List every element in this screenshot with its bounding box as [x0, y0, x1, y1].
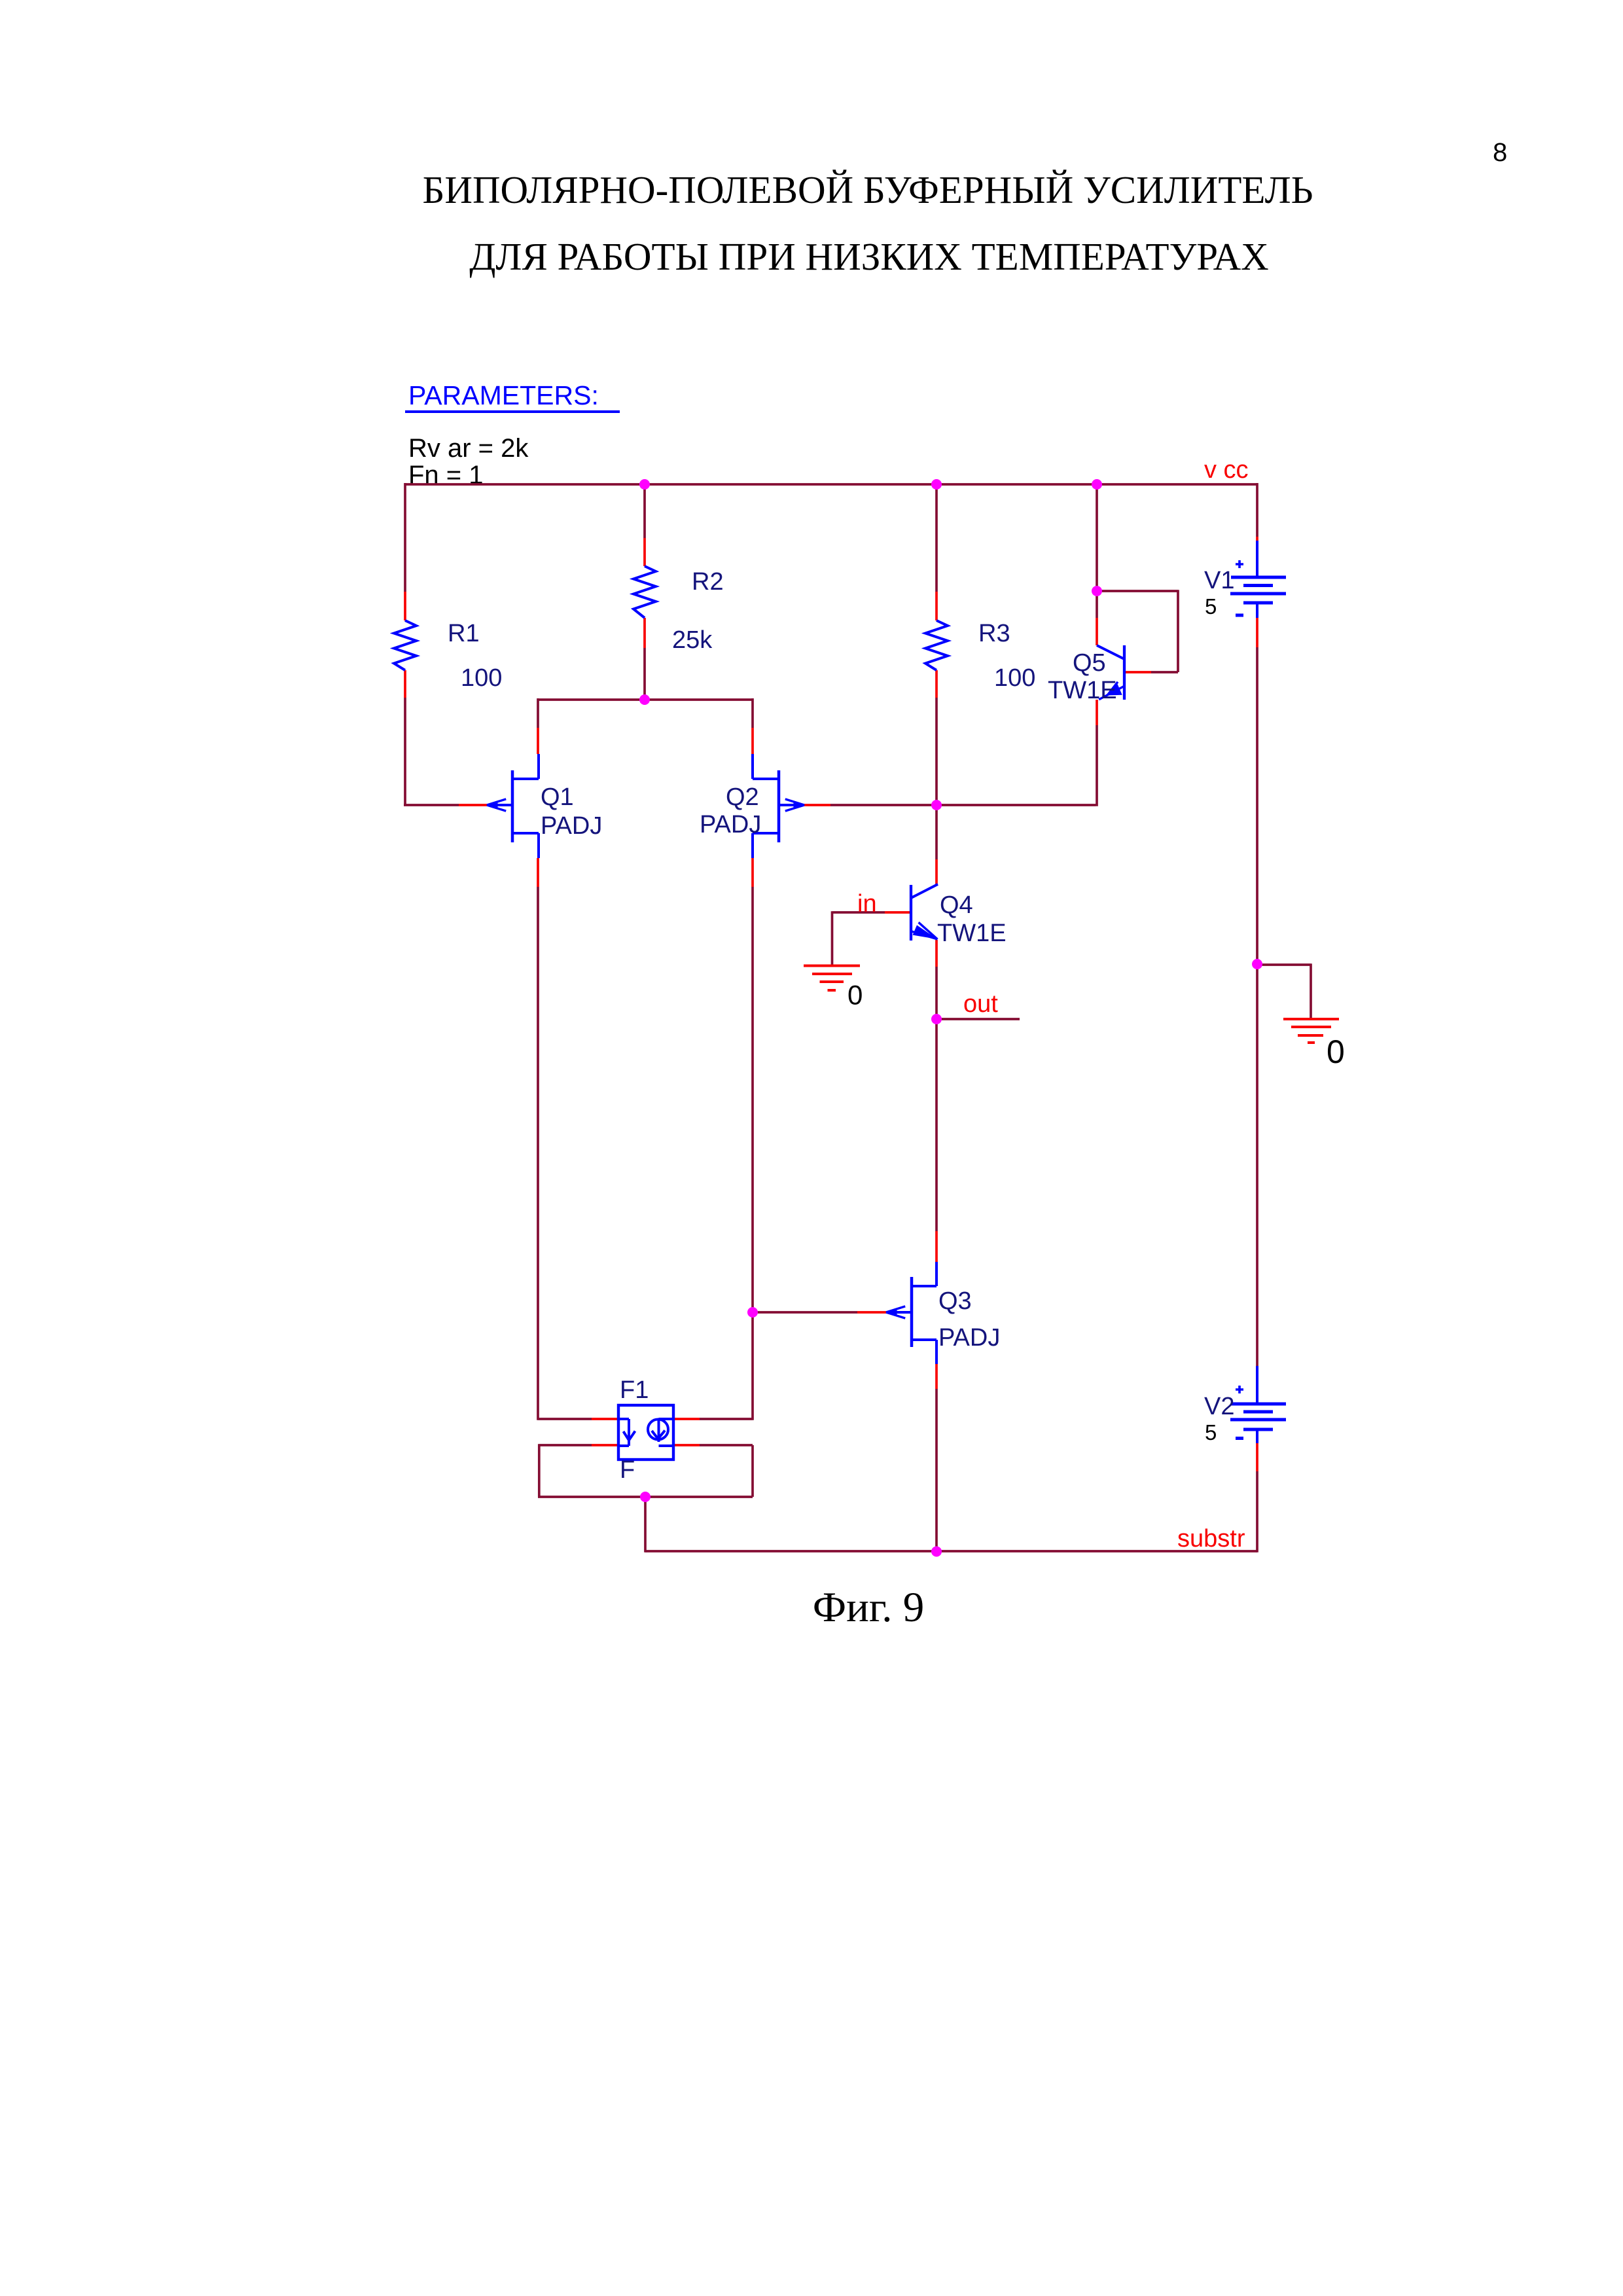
svg-text:R1: R1 [448, 620, 480, 647]
svg-text:PADJ: PADJ [938, 1324, 1000, 1352]
svg-text:Q3: Q3 [938, 1287, 972, 1315]
svg-text:F: F [620, 1456, 635, 1484]
svg-text:Q1: Q1 [541, 783, 574, 811]
svg-text:5: 5 [1205, 594, 1217, 619]
svg-text:БИПОЛЯРНО-ПОЛЕВОЙ БУФЕРНЫЙ УСИ: БИПОЛЯРНО-ПОЛЕВОЙ БУФЕРНЫЙ УСИЛИТЕЛЬ [422, 168, 1313, 211]
svg-text:8: 8 [1493, 138, 1507, 167]
svg-text:0: 0 [1327, 1033, 1345, 1070]
svg-text:Q4: Q4 [940, 891, 973, 919]
svg-text:V1: V1 [1204, 567, 1234, 594]
svg-text:Q5: Q5 [1073, 649, 1106, 677]
svg-text:R2: R2 [692, 568, 724, 596]
svg-text:PARAMETERS:: PARAMETERS: [408, 380, 599, 410]
svg-text:100: 100 [994, 664, 1035, 692]
svg-text:TW1E: TW1E [1048, 677, 1117, 704]
svg-text:R3: R3 [978, 620, 1010, 647]
svg-text:V2: V2 [1204, 1393, 1234, 1420]
svg-text:25k: 25k [672, 626, 713, 654]
svg-text:substr: substr [1177, 1525, 1245, 1552]
svg-text:F1: F1 [620, 1376, 649, 1404]
svg-text:Rv ar = 2k: Rv ar = 2k [408, 434, 529, 463]
svg-text:PADJ: PADJ [700, 811, 761, 838]
svg-text:Q2: Q2 [726, 783, 759, 811]
svg-text:out: out [963, 990, 998, 1018]
svg-text:v cc: v cc [1204, 456, 1249, 484]
svg-text:in: in [857, 890, 877, 918]
svg-text:100: 100 [461, 664, 502, 692]
svg-text:0: 0 [847, 980, 863, 1011]
svg-text:Фиг. 9: Фиг. 9 [813, 1584, 924, 1631]
svg-text:PADJ: PADJ [541, 812, 602, 840]
svg-text:TW1E: TW1E [937, 920, 1007, 947]
svg-text:5: 5 [1205, 1420, 1217, 1444]
svg-text:ДЛЯ РАБОТЫ ПРИ НИЗКИХ ТЕМПЕРАТ: ДЛЯ РАБОТЫ ПРИ НИЗКИХ ТЕМПЕРАТУРАХ [469, 235, 1269, 278]
